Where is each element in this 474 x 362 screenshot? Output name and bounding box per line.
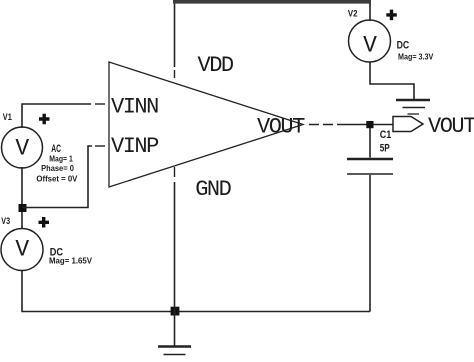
plus sign V2	[386, 10, 397, 21]
svg-text:VDD: VDD	[198, 53, 234, 78]
svg-text:V: V	[15, 237, 29, 263]
pin dash VINP	[95, 145, 105, 147]
svg-text:GND: GND	[195, 177, 231, 202]
wire V1 bottom to V3 top	[21, 167, 23, 229]
svg-text:VINN: VINN	[111, 94, 158, 119]
wire V2 bottom to ground	[370, 62, 414, 99]
svg-text:V2: V2	[348, 8, 358, 18]
pin dash VOUT	[309, 124, 333, 126]
wire V3 bottom to ground rail	[22, 270, 370, 312]
svg-text:VOUT: VOUT	[428, 114, 474, 139]
svg-text:VOUT: VOUT	[257, 114, 305, 139]
svg-text:AC: AC	[51, 143, 61, 155]
pin dash VDD	[174, 70, 176, 78]
voltage source V2	[349, 20, 391, 62]
wire junction to VINP	[22, 146, 92, 208]
svg-text:V3: V3	[1, 216, 10, 226]
ground symbol bottom	[158, 311, 191, 355]
pin dash GND	[174, 167, 176, 177]
wire VDD to top rail	[174, 2, 176, 67]
wire top rail to V2	[369, 3, 371, 21]
svg-text:DC: DC	[397, 40, 410, 52]
svg-text:V: V	[363, 32, 377, 58]
voltage source V1	[2, 127, 43, 168]
op-amp U1 triangle	[109, 62, 303, 187]
plus sign V1	[39, 114, 50, 125]
plus sign V3	[39, 217, 50, 228]
svg-text:VINP: VINP	[111, 134, 159, 159]
svg-text:Mag= 1: Mag= 1	[49, 155, 73, 164]
svg-text:V: V	[15, 135, 29, 161]
capacitor C1	[347, 128, 393, 312]
node junction bottom rail	[171, 307, 180, 316]
output port VOUT	[393, 117, 423, 132]
svg-text:5P: 5P	[380, 142, 390, 154]
svg-text:Phase= 0: Phase= 0	[41, 164, 74, 173]
svg-text:V1: V1	[3, 112, 12, 122]
pin dash VINN	[95, 103, 105, 105]
voltage source V3	[1, 229, 43, 271]
node junction below V1	[19, 204, 27, 212]
svg-text:Offset = 0V: Offset = 0V	[36, 174, 78, 183]
node junction VOUT	[366, 121, 373, 128]
svg-text:Mag= 1.65V: Mag= 1.65V	[49, 257, 93, 266]
svg-text:Mag= 3.3V: Mag= 3.3V	[398, 53, 434, 62]
wire top rail (thick)	[173, 0, 371, 4]
wire V1 top to VINN	[22, 104, 91, 128]
ground symbol V2	[396, 100, 430, 114]
svg-text:C1: C1	[380, 129, 392, 141]
wire VOUT to port	[337, 124, 393, 126]
wire GND pin to rail	[174, 182, 176, 312]
